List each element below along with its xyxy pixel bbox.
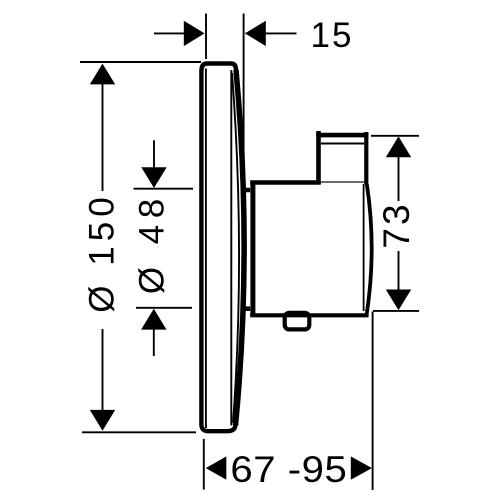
svg-text:73: 73 [376,201,417,248]
neck top silhouette line [243,188,252,193]
plate face inner left line [205,69,207,429]
dim 15: left leader line [154,32,203,34]
dim 15: right leader line [246,32,297,34]
dim 48: upper arrowhead [141,167,166,188]
dim 73: bottom extension line [373,310,419,312]
svg-text:Ø 150: Ø 150 [83,192,122,312]
dim 73: lower arrowhead [386,290,411,311]
mounting tab under body [285,313,310,330]
svg-text:Ø 48: Ø 48 [133,192,172,294]
top block left edge [316,131,321,184]
dim 67-95: right arrowhead [351,456,372,479]
dim 150: top extension line [80,61,201,63]
dim 150: bottom extension line [82,431,196,433]
dim 150: lower leader line [102,329,104,411]
valve body top edge [250,180,321,185]
dim 150: upper leader line [102,84,104,191]
svg-text:15: 15 [311,16,354,55]
valve body right bulged edge [367,184,372,314]
dim 48: bottom extension line [136,307,192,309]
dim 15: left arrowhead [184,21,205,46]
top block fill [316,131,368,183]
dim 48: lower leader line [153,329,155,356]
dim 73: top extension line [371,135,419,137]
dim 48: upper leader line [153,140,155,168]
dim 150: bottom arrowhead [90,410,115,431]
dim 73: lower leader line [398,251,400,290]
dim 48: lower arrowhead [141,309,166,330]
neck bottom silhouette line [243,306,252,311]
dim 73: upper arrowhead [386,136,411,157]
dim 67-95: left arrowhead [206,456,227,479]
dim 73: upper leader line [398,156,400,201]
valve body left edge [250,181,255,316]
valve body inner right line [363,184,365,311]
plate face inner right line [230,70,232,426]
dim 48: top extension line [134,188,194,190]
escutcheon plate outline [201,64,244,432]
top block top edge [316,133,368,138]
dim 15: right extension line [243,14,245,161]
top block right edge [364,132,368,185]
dim 15: left extension line [205,14,207,60]
dim 67-95: right extension line [372,312,374,491]
dim 67-95: left extension line [203,439,205,490]
valve body fill [250,180,368,317]
body top edge seen through block [321,181,364,183]
plate outer bulge emphasis [236,70,245,425]
svg-text:67 -95: 67 -95 [230,448,347,490]
plate dome inner contour [232,73,239,423]
valve body bottom edge [250,313,368,317]
dim 15: right arrowhead [245,21,266,46]
dim 150: top arrowhead [90,64,115,85]
top block inner line [321,143,364,145]
